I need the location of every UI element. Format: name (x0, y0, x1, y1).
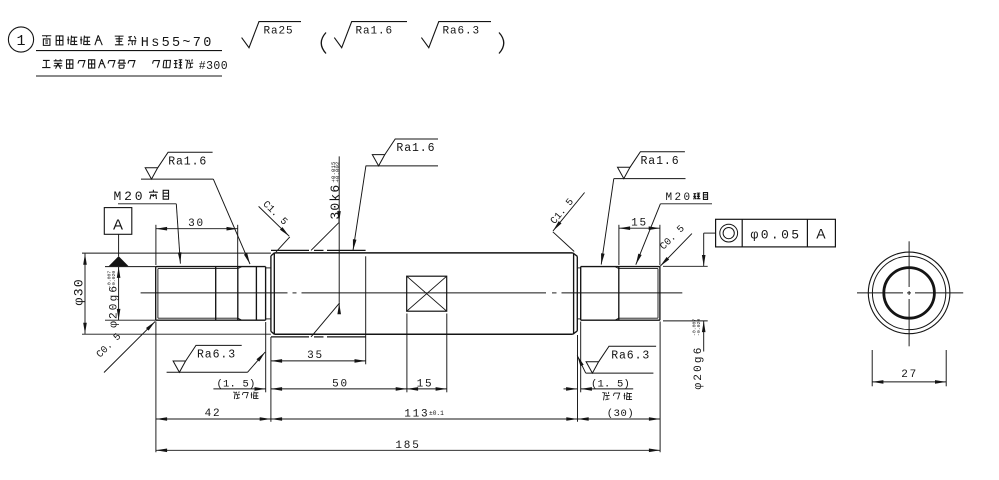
svg-text:1: 1 (16, 33, 25, 50)
svg-text:Ra1.6: Ra1.6 (641, 155, 680, 168)
svg-text:φ30: φ30 (72, 278, 87, 306)
svg-text:30: 30 (188, 218, 205, 230)
svg-text:A: A (113, 217, 123, 234)
svg-text:-0.020: -0.020 (696, 319, 702, 336)
svg-text:Ra6.3: Ra6.3 (443, 25, 481, 37)
svg-text:Ra6.3: Ra6.3 (611, 349, 650, 362)
svg-text:φ20g6: φ20g6 (108, 284, 120, 328)
svg-text:42: 42 (205, 408, 222, 420)
svg-text:-0.020: -0.020 (111, 271, 117, 288)
svg-text:(30): (30) (607, 408, 635, 420)
svg-text:15: 15 (417, 379, 434, 391)
svg-text:15: 15 (631, 218, 648, 230)
svg-text:(1. 5): (1. 5) (216, 379, 255, 391)
svg-text:(1. 5): (1. 5) (591, 379, 630, 391)
svg-text:113: 113 (404, 408, 429, 420)
svg-text:A: A (816, 226, 826, 242)
svg-text:Ra25: Ra25 (264, 25, 294, 37)
svg-text:φ20g6: φ20g6 (693, 345, 705, 389)
svg-text:Ra1.6: Ra1.6 (396, 142, 435, 155)
svg-text:φ0.05: φ0.05 (751, 227, 802, 242)
svg-text:Ra1.6: Ra1.6 (356, 25, 394, 37)
svg-text:#300: #300 (199, 60, 228, 73)
svg-text:50: 50 (332, 379, 349, 391)
svg-text:Ra6.3: Ra6.3 (197, 349, 236, 362)
svg-text:Hs55~70: Hs55~70 (141, 36, 214, 51)
svg-text:30k6: 30k6 (328, 184, 343, 220)
svg-text:+0.002: +0.002 (334, 161, 341, 182)
svg-text:27: 27 (901, 369, 918, 381)
svg-text:35: 35 (307, 350, 324, 362)
svg-text:M20: M20 (666, 192, 693, 204)
svg-text:Ra1.6: Ra1.6 (168, 155, 207, 168)
svg-text:M20: M20 (114, 189, 146, 204)
svg-text:±0.1: ±0.1 (429, 410, 444, 417)
svg-text:185: 185 (395, 440, 420, 452)
